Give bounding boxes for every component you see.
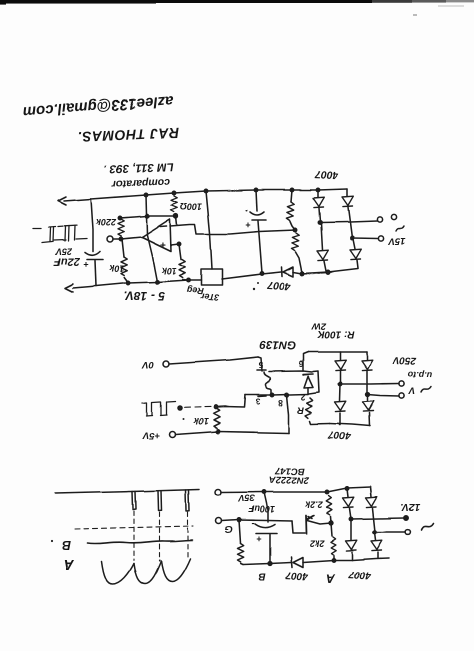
svg-text:4007: 4007 (314, 168, 340, 181)
node dot top rail cap (262, 490, 265, 493)
capacitor C3 100uF (264, 492, 268, 522)
resistor R11 2k2 (331, 523, 332, 536)
terminal circle G (216, 518, 222, 524)
node dot pulse input (178, 406, 182, 410)
node dot plus input (177, 242, 180, 245)
wire bridge2 bottom rail (330, 424, 370, 427)
svg-text:R: R (297, 404, 304, 415)
op-amp U1 triangle (142, 219, 171, 251)
wire 100R bottom stub to minus wire (176, 216, 177, 225)
diode D11 horizontal (291, 557, 292, 568)
diode D1 (317, 190, 319, 197)
svg-text:B: B (62, 538, 71, 552)
wire vertical B to regulator (206, 191, 212, 269)
svg-text:4007: 4007 (328, 429, 352, 442)
svg-text:4007: 4007 (348, 568, 372, 581)
top circuit: comparator power supply (33, 160, 405, 303)
wire bottom rail ckt3 right (303, 558, 389, 562)
node dot bridge1 midright (350, 236, 353, 239)
svg-text:B: B (258, 570, 265, 581)
transistor Q1 emitter arrow (307, 516, 314, 520)
label 4007 bridge2 (328, 429, 352, 442)
wire opto pin8 vertical (287, 395, 289, 433)
wire base staircase (292, 521, 305, 533)
node dot top rail 2.2k (325, 490, 328, 493)
node dot divider top (290, 188, 293, 191)
svg-text:8: 8 (278, 398, 283, 408)
wire +5V rail to opto pin8 (175, 432, 289, 435)
waveform A rectified sine cups (102, 559, 190, 584)
svg-text:2: 2 (300, 392, 305, 402)
svg-text:4007: 4007 (285, 568, 309, 581)
waveform pulse train input (142, 401, 175, 416)
diode D9 (339, 384, 342, 401)
wire pin6 hook to bridge top (303, 352, 308, 371)
diode D5 horizontal on bottom rail (281, 267, 284, 277)
node dot bridge3 midright (373, 530, 376, 533)
svg-text:25V: 25V (55, 247, 73, 257)
opto U3 pin5 stub and digit (257, 369, 266, 371)
opto pin6 digit (298, 359, 303, 369)
wire 0V to opto (169, 357, 258, 364)
terminal circle DC2 (405, 530, 410, 535)
node dot bridge2 midright (366, 393, 370, 397)
wire bridge2 top rail (308, 351, 367, 353)
terminal circle output (107, 236, 113, 242)
terminal circle AC2 (399, 393, 404, 398)
wire dashed from pulse input (184, 406, 190, 408)
wire top rail (64, 189, 347, 201)
label comparator LM311,393 (103, 160, 173, 190)
node dot divider mid (293, 228, 296, 231)
label V tilde 250V (392, 354, 433, 395)
diode D8 (366, 352, 368, 360)
svg-text:u.p.to: u.p.to (407, 370, 432, 381)
svg-text:220k: 220k (95, 217, 117, 227)
label 4007 top (314, 168, 340, 181)
svg-text:-: - (252, 519, 255, 529)
node dot cap2 top (254, 188, 257, 191)
resistor R3 10k left (122, 239, 124, 257)
label 6N139 (259, 338, 296, 351)
terminal dot 12V (404, 516, 408, 520)
label 10k (182, 416, 209, 426)
resistor R5 divider upper (291, 190, 292, 202)
resistor R1 220k (118, 219, 124, 236)
wire left vertical (91, 199, 93, 252)
transistor Q1 collector (307, 521, 331, 525)
diode D2 (321, 223, 323, 250)
terminal circle 0 (377, 217, 382, 222)
svg-text:100uF: 100uF (248, 504, 275, 514)
scanner artifact top bar (0, 0, 474, 16)
regulator U2 box (201, 269, 223, 285)
label R:100K 2W (311, 321, 355, 340)
label 15V and tilde (388, 236, 406, 247)
terminal circle +5V (169, 432, 175, 438)
terminal circle AC1 (399, 381, 404, 386)
opto pin8 digit (278, 398, 283, 408)
node dot bridge3 topleft (345, 487, 348, 490)
tilde AC bottom (421, 524, 433, 531)
node dot bridge2 midleft (338, 382, 341, 385)
node dot bridge3 midleft (349, 517, 352, 520)
node dot top rail A (144, 193, 147, 196)
node dot bridge1 midleft (318, 221, 321, 224)
svg-text:3: 3 (255, 397, 260, 407)
wire vertical A from top rail (146, 195, 157, 282)
resistor R7 10k (214, 408, 220, 428)
wire op-amp minus input staircase (170, 225, 296, 235)
svg-text:G: G (225, 523, 233, 534)
resistor R2 100R (171, 196, 177, 212)
wire AC out 1 (340, 383, 399, 386)
node dot opto pin8 (285, 393, 288, 396)
svg-text:GN139: GN139 (259, 338, 296, 351)
svg-text:+: + (83, 260, 88, 270)
node dot 100R bottom (174, 214, 178, 218)
middle circuit: optocoupler + bridge (142, 321, 433, 442)
wire AC terminal 0 (320, 221, 377, 223)
node dot 10k left bottom (126, 281, 129, 284)
waveform square wave 25V (33, 226, 87, 243)
svg-text:V: V (408, 385, 415, 396)
dashed vertical timing lines (134, 511, 188, 561)
diode D15 (375, 532, 376, 540)
diode D3 (342, 196, 353, 206)
wire bottom rail ckt3 (243, 562, 291, 564)
wire DC out 2 (375, 531, 405, 533)
node dot top rail 100R (172, 191, 175, 194)
waveform top line with pulses (55, 490, 199, 512)
stray pen dot near C2 (246, 210, 248, 212)
diode D14 (350, 519, 352, 540)
opto pin3 stub and digit (258, 395, 266, 398)
label 12V tilde (400, 501, 420, 512)
svg-text:10k: 10k (109, 264, 125, 274)
svg-text:2N2222A: 2N2222A (269, 474, 310, 486)
diode D6 zener on left chain (303, 373, 313, 376)
wire 220k top to 100R bottom (120, 216, 175, 218)
svg-text:35V: 35V (238, 493, 255, 503)
diode D12 (347, 489, 348, 498)
node dot cap bottom (268, 561, 272, 565)
svg-text:3Ter: 3Ter (200, 291, 220, 302)
arrowhead output left top (58, 197, 66, 205)
label 0 (391, 214, 396, 219)
wire AC out 2 (368, 395, 400, 397)
wire step to 10k (216, 395, 245, 407)
svg-text:5 - 18V.: 5 - 18V. (124, 289, 165, 303)
label 22uF 25V plus square wave (54, 247, 89, 271)
bottom circuit: transistor + bridge + waveforms (51, 465, 433, 585)
wire bridge3 topright corner (370, 487, 371, 497)
svg-text:R: 100K: R: 100K (317, 329, 355, 340)
waveform B wavy line (88, 540, 192, 544)
terminal circle 15V (378, 236, 383, 241)
svg-text:10k: 10k (161, 266, 177, 276)
transistor Q1 base bar (305, 516, 308, 534)
node dot top rail B (204, 189, 207, 192)
wire bottom rail right (293, 269, 358, 274)
diode D13 (366, 497, 377, 507)
node dot divider bottom (300, 272, 303, 275)
svg-text:15V: 15V (388, 236, 406, 247)
node dot bridge1 topleft (316, 188, 319, 191)
terminal circle supply top (216, 490, 222, 496)
node dot vertical A bottom (155, 280, 158, 283)
node dot bottom rail right (326, 270, 329, 273)
node dot collector junction (329, 521, 333, 525)
svg-text:azlee133@gmail.com: azlee133@gmail.com (23, 92, 174, 121)
wire bottom rail left (73, 280, 201, 288)
wire top rail ckt3 (222, 487, 371, 493)
node dot 220k bottom (119, 237, 122, 240)
resistor R8 load (305, 397, 313, 418)
svg-text:12V.: 12V. (400, 501, 420, 512)
wire top rail corner to D3 (346, 189, 348, 196)
dashed horizontal reference line (75, 526, 193, 529)
node dot cap2 bottom (260, 272, 263, 275)
svg-text:+: + (256, 534, 261, 544)
svg-text:RAJ THOMAS.: RAJ THOMAS. (77, 125, 180, 145)
header handwriting (23, 92, 180, 146)
node dot 10k right bottom (186, 278, 189, 281)
svg-text:+: + (160, 238, 166, 249)
node dot 220k top (118, 216, 121, 219)
wire left vertical lower (95, 261, 96, 286)
svg-text:2.2k: 2.2k (304, 500, 324, 510)
svg-text:5: 5 (258, 360, 263, 370)
label 4007 bottom (257, 279, 292, 293)
node dot bottom rail 2k2 (332, 558, 335, 561)
label 3Ter Reg (124, 285, 256, 303)
label 35V 100uF (238, 493, 275, 514)
svg-text:+5V: +5V (142, 430, 160, 441)
capacitor C1 22uF plates (85, 252, 100, 256)
wire opto bottom rail (245, 394, 308, 395)
resistor R9 left vertical (239, 520, 241, 543)
node dot 10k bottom (216, 430, 219, 433)
diode D4 (353, 239, 355, 249)
node dot 10k top (214, 405, 217, 408)
capacitor C2 filter (256, 190, 257, 211)
diode D7 (339, 352, 341, 360)
node dot opto pin3 (270, 393, 273, 396)
label B waveform (51, 538, 71, 552)
svg-text:250V: 250V (392, 354, 418, 366)
terminal circle 0V (163, 361, 169, 367)
wire G rail (222, 520, 292, 521)
wire DC out 12V (351, 518, 404, 519)
svg-text:10k: 10k (193, 416, 209, 426)
svg-text:100Ω: 100Ω (180, 202, 202, 212)
svg-text:LM 311, 393 .: LM 311, 393 . (103, 160, 173, 174)
tilde AC mid (421, 387, 431, 393)
svg-text:+: + (245, 220, 250, 230)
resistor R4 10k right (179, 244, 181, 259)
svg-text:4007: 4007 (266, 279, 292, 293)
wire bracket parallel (309, 371, 319, 394)
wire opto pin6 rail (269, 371, 312, 372)
node dot G rail (237, 518, 240, 521)
svg-text:A: A (64, 556, 75, 572)
tilde AC top (396, 227, 404, 232)
resistor R6 divider lower (291, 233, 299, 251)
resistor R10 2.2k (326, 495, 332, 515)
opto U3 LED squiggle (264, 372, 271, 395)
labels B 4007 A 4007 (258, 568, 372, 585)
wire opto pin5 drop (258, 357, 262, 371)
label 2N2222A BC147 (269, 465, 310, 486)
wire bottom rail right of regulator (222, 272, 281, 279)
svg-text:2k2: 2k2 (309, 538, 325, 548)
wire op-amp plus input (171, 244, 179, 245)
svg-text:A: A (326, 571, 336, 585)
diode D10 (367, 395, 369, 402)
svg-text:0V: 0V (142, 359, 154, 370)
label G (225, 523, 233, 534)
wire AC terminal 15V (352, 237, 378, 240)
svg-text:comparator: comparator (111, 176, 170, 190)
label A waveform (64, 556, 75, 572)
wire output node to op-amp apex (113, 237, 142, 239)
arrowhead output left bottom (65, 284, 73, 292)
label pin2 and R (297, 392, 305, 415)
